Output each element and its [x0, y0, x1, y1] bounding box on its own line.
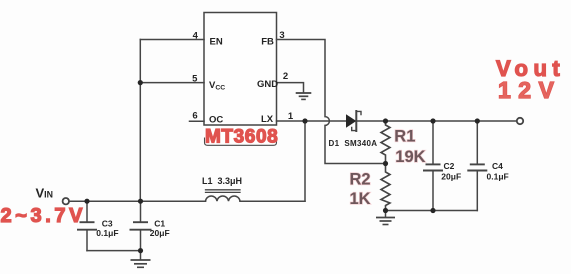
svg-text:L1 3.3μH: L1 3.3μH — [202, 176, 242, 186]
svg-text:4: 4 — [193, 30, 199, 41]
svg-text:12V: 12V — [498, 77, 561, 103]
svg-text:FB: FB — [261, 36, 274, 47]
svg-text:5: 5 — [192, 74, 198, 85]
svg-text:C2: C2 — [444, 161, 455, 171]
svg-text:0.1μF: 0.1μF — [96, 228, 118, 238]
svg-text:1: 1 — [288, 111, 294, 122]
svg-text:6: 6 — [192, 110, 197, 121]
svg-text:C3: C3 — [102, 219, 113, 229]
svg-text:2: 2 — [283, 71, 288, 82]
svg-text:0.1μF: 0.1μF — [487, 172, 509, 182]
svg-text:OC: OC — [209, 115, 223, 126]
svg-text:C1: C1 — [154, 219, 165, 229]
svg-text:EN: EN — [210, 37, 223, 48]
svg-text:C4: C4 — [492, 161, 503, 171]
svg-text:19K: 19K — [395, 148, 425, 166]
svg-text:R2: R2 — [350, 171, 371, 189]
svg-text:LX: LX — [261, 114, 274, 125]
svg-text:20μF: 20μF — [441, 172, 461, 182]
svg-text:GND: GND — [257, 79, 278, 90]
svg-text:20μF: 20μF — [150, 228, 170, 238]
svg-text:2~3.7V: 2~3.7V — [1, 205, 87, 227]
svg-text:3: 3 — [279, 30, 284, 41]
svg-text:D1 SM340A: D1 SM340A — [329, 139, 378, 148]
svg-text:MT3608: MT3608 — [205, 126, 278, 147]
svg-text:R1: R1 — [394, 128, 415, 146]
svg-text:1K: 1K — [350, 190, 371, 208]
